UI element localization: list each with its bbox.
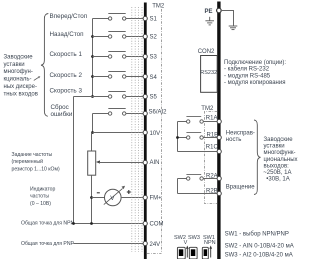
svg-text:(переменный: (переменный xyxy=(12,158,44,165)
svg-text:S1: S1 xyxy=(150,17,158,23)
svg-text:Вращение: Вращение xyxy=(226,184,256,190)
arrow V xyxy=(186,246,189,258)
wire S6 drop to 10V node xyxy=(92,114,94,133)
ground symbol left xyxy=(205,17,214,25)
svg-text:COM: COM xyxy=(150,222,164,228)
svg-text:Вперед/Стоп: Вперед/Стоп xyxy=(50,13,88,20)
relay contact R1A xyxy=(178,117,218,124)
wire common PNP xyxy=(73,243,143,245)
terminal R1B xyxy=(207,132,222,139)
ground symbol right xyxy=(229,26,238,30)
svg-text:многофун-: многофун- xyxy=(4,69,33,75)
svg-text:S3: S3 xyxy=(150,54,158,60)
common line for switches xyxy=(92,19,94,97)
svg-text:SW3: SW3 xyxy=(188,235,200,241)
svg-text:- модуля RS-485: - модуля RS-485 xyxy=(224,73,271,79)
node NPN junction xyxy=(90,222,93,225)
svg-text:SW3 - AI2 0-10В/4-20 мА: SW3 - AI2 0-10В/4-20 мА xyxy=(225,253,293,259)
wire R2B xyxy=(178,193,218,195)
svg-text:Общая точка для PNP: Общая точка для PNP xyxy=(21,241,75,247)
minus sign xyxy=(97,192,100,194)
arrow NPN xyxy=(209,246,212,258)
svg-text:SW1 - выбор NPN/PNP: SW1 - выбор NPN/PNP xyxy=(225,232,289,238)
node row4 xyxy=(91,75,94,78)
plus sign xyxy=(127,190,131,194)
terminal R2A xyxy=(206,173,221,180)
terminal 10V xyxy=(143,130,160,137)
wire PE to ground xyxy=(221,11,234,27)
terminal S2 xyxy=(143,34,157,40)
svg-text:Задание частоты: Задание частоты xyxy=(12,152,53,158)
label fault xyxy=(226,130,255,142)
svg-text:выходов:: выходов: xyxy=(264,163,290,169)
node row2 xyxy=(91,35,94,38)
svg-text:FM+: FM+ xyxy=(150,196,163,202)
svg-text:резистор 1...10 кОм): резистор 1...10 кОм) xyxy=(12,167,60,173)
svg-text:R1A: R1A xyxy=(206,115,218,121)
node NPN left junction xyxy=(72,222,75,225)
svg-text:V: V xyxy=(184,240,188,246)
switch S4 speed 2 xyxy=(93,72,144,79)
dip switch SW3 xyxy=(189,247,197,259)
svg-text:тных входов: тных входов xyxy=(4,91,38,97)
svg-text:Заводские: Заводские xyxy=(264,137,294,143)
svg-text:Общая точка для NPN: Общая точка для NPN xyxy=(21,221,75,227)
wire R1C xyxy=(178,151,218,153)
svg-text:TM2: TM2 xyxy=(201,106,214,112)
svg-text:S6/AI2: S6/AI2 xyxy=(149,110,168,116)
svg-text:R2B: R2B xyxy=(206,189,218,195)
svg-text:AIN: AIN xyxy=(150,160,160,166)
label Сброс ошибки xyxy=(51,103,73,118)
switch S2 reverse/stop xyxy=(93,32,144,39)
terminal S6/AI2 xyxy=(143,110,167,116)
label frequency setting xyxy=(12,152,60,173)
dip switch SW2 xyxy=(177,247,185,259)
voltmeter V xyxy=(104,186,125,206)
terminal S4 xyxy=(143,74,157,81)
terminal S3 xyxy=(143,54,157,60)
leader arrow to brace xyxy=(34,76,41,80)
svg-text:RS232: RS232 xyxy=(200,70,217,76)
enclosure dash-dot line left xyxy=(161,9,163,252)
svg-text:24V: 24V xyxy=(150,242,161,248)
svg-text:R1B: R1B xyxy=(207,132,219,138)
node voltmeter junction xyxy=(90,196,93,199)
note: factory settings of multifunction outputs xyxy=(263,137,297,182)
cable bundle dotted lines xyxy=(132,7,142,252)
svg-text:~250В, 1А: ~250В, 1А xyxy=(263,170,291,176)
enclosure dash bottom left xyxy=(147,253,162,255)
svg-text:Неисправ-: Неисправ- xyxy=(226,130,255,136)
svg-text:R1C: R1C xyxy=(206,144,219,150)
note: factory settings of multifunction discrete inputs xyxy=(4,55,38,98)
relay contact R2A xyxy=(178,175,218,181)
svg-text:Скорость 2: Скорость 2 xyxy=(50,72,83,79)
svg-text:кциональ-: кциональ- xyxy=(4,77,32,83)
switch S3 speed 1 xyxy=(93,52,144,59)
terminal PE xyxy=(205,8,222,15)
switch S1 forward/stop xyxy=(93,14,144,21)
svg-text:•30В, 1А: •30В, 1А xyxy=(266,177,289,183)
svg-text:Подключение (опции):: Подключение (опции): xyxy=(224,60,286,66)
terminal COM xyxy=(143,221,163,227)
node row3 xyxy=(91,55,94,58)
svg-text:Назад/Стоп: Назад/Стоп xyxy=(50,31,84,38)
svg-text:PE: PE xyxy=(205,9,213,15)
main body bar right xyxy=(217,2,220,259)
svg-text:циональных: циональных xyxy=(264,157,298,163)
svg-text:Сброс: Сброс xyxy=(51,103,69,111)
svg-text:- модуля копирования: - модуля копирования xyxy=(224,80,285,86)
terminal FM+ xyxy=(143,195,162,201)
wire to potentiometer top xyxy=(91,133,93,152)
svg-text:- кабеля RS-232: - кабеля RS-232 xyxy=(224,67,270,73)
terminal S1 xyxy=(143,16,157,22)
node 10V junction xyxy=(91,131,94,134)
svg-text:Индикатор: Индикатор xyxy=(30,186,55,192)
connector CON2 RS232 xyxy=(200,56,217,93)
wire to voltmeter xyxy=(92,197,105,199)
svg-text:частоты: частоты xyxy=(30,194,49,200)
switch S5 speed 3 xyxy=(74,92,144,99)
potentiometer R 1..10k xyxy=(88,151,96,175)
wire relay1 common xyxy=(177,122,179,152)
relay contact R1B xyxy=(178,133,218,140)
terminal R1A xyxy=(206,115,221,123)
svg-text:NPN: NPN xyxy=(204,240,216,246)
svg-text:CON2: CON2 xyxy=(198,49,215,55)
svg-text:R2A: R2A xyxy=(206,173,218,179)
svg-text:S2: S2 xyxy=(150,34,158,40)
svg-text:S5: S5 xyxy=(150,95,158,101)
terminal R1C xyxy=(206,144,221,153)
note: connection options xyxy=(224,60,286,86)
svg-text:уставки: уставки xyxy=(264,144,285,150)
svg-text:Скорость 3: Скорость 3 xyxy=(50,88,83,95)
svg-text:уставки: уставки xyxy=(4,62,25,68)
terminal AIN xyxy=(143,160,159,166)
brace inputs group xyxy=(41,14,48,117)
dip switch SW1 xyxy=(202,247,208,259)
terminal strip bar TM2 xyxy=(144,3,147,259)
terminal S5 xyxy=(143,94,157,100)
svg-text:(0 – 10В): (0 – 10В) xyxy=(30,201,51,207)
wire relay2 common xyxy=(177,179,179,194)
wire FM+ xyxy=(121,197,143,199)
note: SW descriptions xyxy=(225,232,294,259)
switch S6 fault reset xyxy=(93,109,144,116)
wire 10V xyxy=(93,132,144,134)
svg-text:многофунк-: многофунк- xyxy=(264,150,296,156)
svg-text:ность: ность xyxy=(226,137,242,143)
svg-text:Заводские: Заводские xyxy=(4,55,34,61)
terminal 24V xyxy=(143,241,160,248)
label frequency indicator xyxy=(30,186,55,207)
terminal R2B xyxy=(206,189,221,196)
node row5 xyxy=(91,95,94,98)
node relay1 xyxy=(176,136,179,139)
wire potentiometer bottom xyxy=(91,175,93,223)
svg-text:TM2: TM2 xyxy=(152,4,165,10)
wire common NPN xyxy=(72,223,144,225)
svg-text:ошибки: ошибки xyxy=(51,110,73,118)
relay enclosure dash-dot box xyxy=(205,112,218,204)
svg-text:S4: S4 xyxy=(150,75,158,81)
svg-text:SW2 - AIN 0-10В/4-20 мА: SW2 - AIN 0-10В/4-20 мА xyxy=(225,244,294,250)
wire switches common down to NPN line xyxy=(73,97,75,224)
brace outputs group xyxy=(254,120,261,195)
wiper arrow xyxy=(96,160,143,163)
svg-text:ных дискре-: ных дискре- xyxy=(4,84,37,90)
svg-text:10V: 10V xyxy=(150,131,161,137)
svg-text:Скорость 1: Скорость 1 xyxy=(50,51,83,58)
